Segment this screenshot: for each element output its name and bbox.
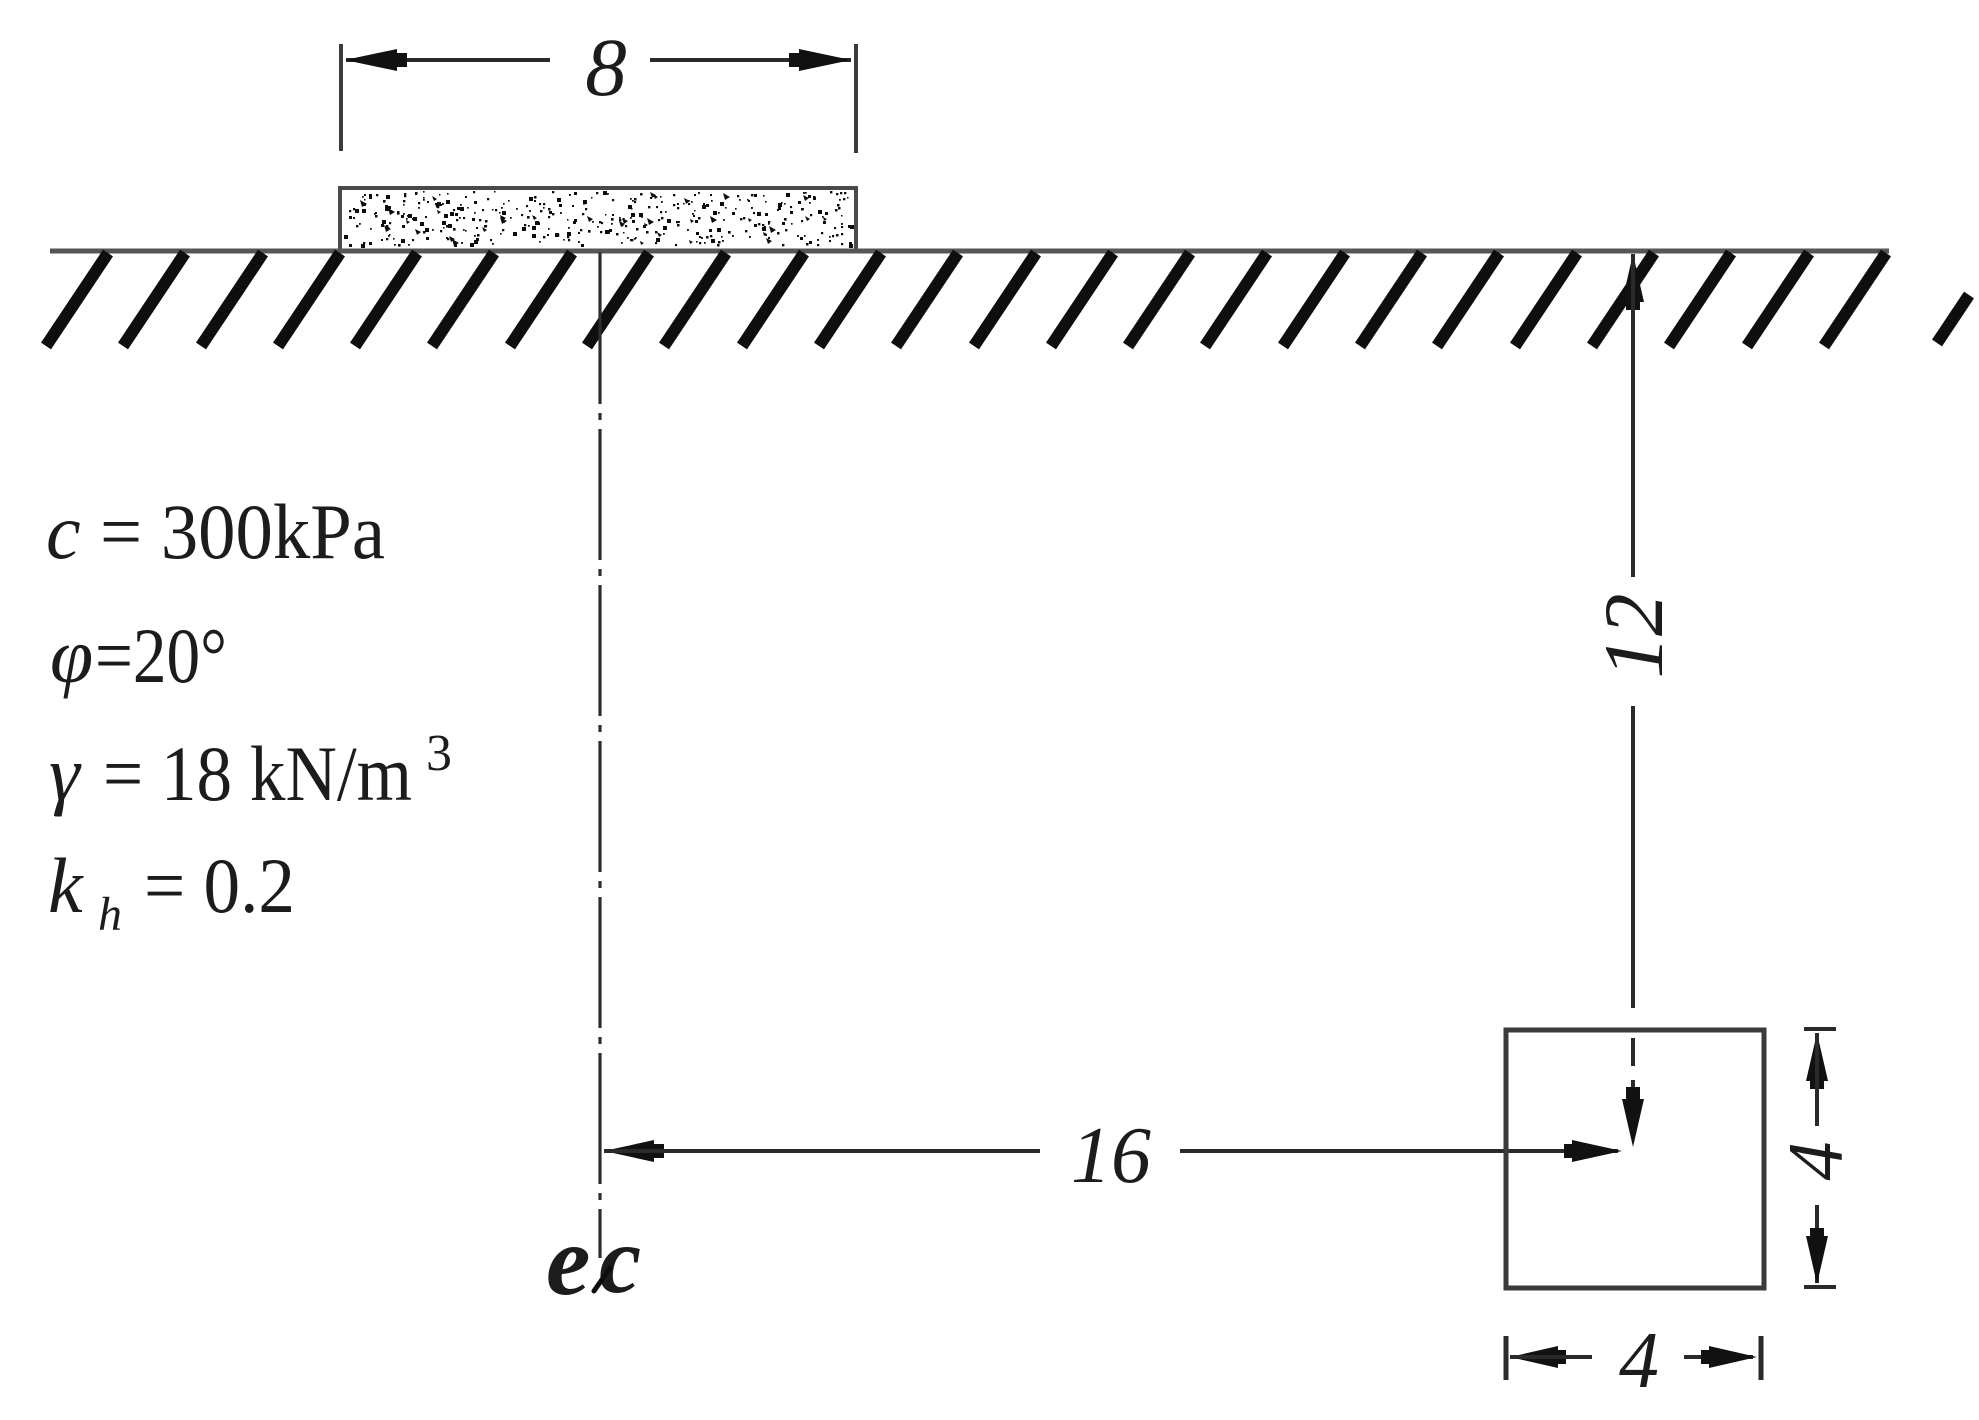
centerline label C.L (script) — [546, 1205, 641, 1316]
svg-text:= 18 kN/m: = 18 kN/m — [103, 730, 412, 817]
svg-text:4: 4 — [1619, 1317, 1659, 1405]
dimension 4 right: bottom arrowhead (pointing down) — [1806, 1228, 1828, 1284]
centerline label connector stroke — [594, 1268, 610, 1291]
dimension 12: bottom arrowhead (pointing down) — [1622, 1087, 1644, 1147]
svg-text:16: 16 — [1071, 1112, 1151, 1200]
dimension 4 bottom: left tick — [1504, 1336, 1509, 1380]
dimension 4 right: bottom tick — [1804, 1285, 1836, 1289]
dimension 4 right: top arrowhead (pointing up) — [1806, 1033, 1828, 1089]
dimension 12: upper shaft — [1631, 254, 1635, 577]
dimension 16: right arrowhead (pointing right) — [1564, 1140, 1622, 1162]
centerline of footing — [598, 252, 601, 404]
svg-text:k: k — [48, 842, 84, 929]
dimension 4 bottom: right arrowhead (pointing right) — [1701, 1346, 1757, 1368]
dimension 16: left shaft — [604, 1149, 1040, 1153]
dimension 4 bottom: right shaft — [1684, 1355, 1753, 1359]
svg-text:12: 12 — [1587, 594, 1681, 679]
svg-text:8: 8 — [585, 21, 627, 113]
dimension 4 bottom: left shaft — [1510, 1355, 1592, 1359]
dimension 12: shaft dash inside square — [1631, 1038, 1635, 1066]
svg-text:γ: γ — [49, 730, 82, 817]
svg-text:φ: φ — [50, 612, 93, 699]
dimension 4 right: top tick — [1804, 1027, 1836, 1031]
svg-text:= 300kPa: = 300kPa — [100, 488, 385, 575]
dimension 4 bottom: right tick — [1759, 1336, 1764, 1380]
dimension 16: right shaft — [1180, 1149, 1618, 1153]
svg-text:= 0.2: = 0.2 — [144, 842, 295, 929]
dimension 12: top arrowhead (pointing up at ground) — [1622, 254, 1644, 310]
dimension 8: right extension line — [854, 44, 858, 153]
dimension 16: left arrowhead (pointing left at centerline) — [604, 1140, 664, 1162]
dimension 8: right dim line segment — [650, 58, 851, 62]
svg-text:=20°: =20° — [95, 612, 227, 699]
svg-text:e: e — [546, 1205, 590, 1316]
anchor block (square) — [1506, 1030, 1764, 1288]
svg-text:c: c — [599, 1207, 641, 1313]
dimension 4 bottom: left arrowhead (pointing left) — [1510, 1346, 1566, 1368]
dimension 4 right: upper shaft — [1815, 1033, 1819, 1126]
footing slab (stippled concrete) — [340, 188, 856, 251]
ground surface line — [50, 249, 1889, 254]
svg-text:h: h — [98, 888, 122, 941]
svg-text:c: c — [46, 488, 81, 575]
dimension 8: right arrowhead — [789, 49, 851, 71]
ground hatching: right stub — [1937, 295, 1969, 343]
dimension 8: left dim line segment — [346, 58, 550, 62]
dimension 4 right: lower shaft — [1815, 1205, 1819, 1283]
svg-text:4: 4 — [1772, 1142, 1859, 1181]
svg-text:3: 3 — [426, 725, 452, 782]
dimension 12: lower shaft — [1631, 706, 1635, 1008]
dimension 8: left extension line — [339, 44, 343, 151]
ground hatching — [46, 253, 1969, 346]
dimension 8: left arrowhead — [345, 49, 407, 71]
